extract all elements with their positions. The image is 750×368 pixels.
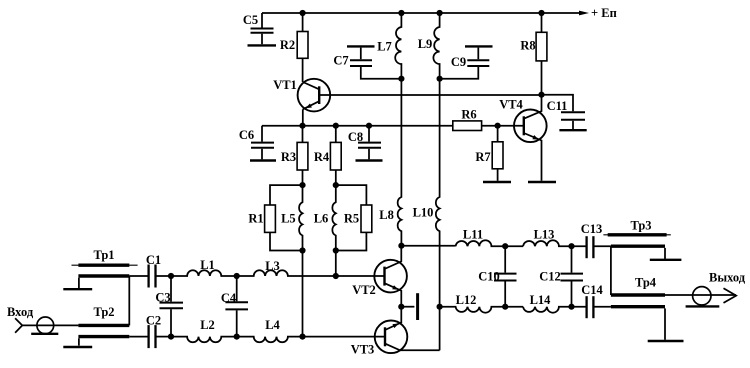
inductor L1 xyxy=(171,270,237,276)
inductor L14 xyxy=(523,307,585,313)
junction dot xyxy=(502,304,508,310)
transformer Tr1 winding 1 xyxy=(78,264,129,267)
svg-text:C4: C4 xyxy=(221,291,237,305)
wire Tr4 output xyxy=(665,294,736,296)
resistor R8 xyxy=(536,13,547,95)
junction dot xyxy=(299,247,305,253)
svg-text:C7: C7 xyxy=(333,54,348,68)
inductor L9 xyxy=(433,13,439,79)
inductor L8 xyxy=(398,79,402,246)
ground C11 xyxy=(559,129,586,131)
svg-text:C5: C5 xyxy=(243,13,258,27)
transistor VT3 xyxy=(375,307,440,353)
svg-text:C12: C12 xyxy=(539,270,561,284)
ground C5 xyxy=(248,44,277,46)
svg-text:L7: L7 xyxy=(377,39,392,53)
capacitor C5 xyxy=(251,13,274,44)
transformer Tr3 winding 1 xyxy=(608,233,667,236)
resistor R2 xyxy=(297,13,308,82)
wire Tr1 to C1 xyxy=(129,275,148,277)
junction dot xyxy=(234,273,240,279)
resistor R3 xyxy=(297,126,308,185)
input connector xyxy=(37,317,54,334)
inductor L6 xyxy=(332,185,335,250)
ground Tr1 xyxy=(63,288,92,290)
capacitor C14 xyxy=(587,296,611,318)
wire Tr2 to C2 xyxy=(129,336,148,338)
wire L5 bottom to row2 xyxy=(302,251,304,337)
ground C6 xyxy=(250,159,276,161)
capacitor C8 xyxy=(358,126,381,160)
svg-text:L8: L8 xyxy=(379,208,394,222)
svg-text:C14: C14 xyxy=(581,283,603,297)
wire Tr1 ground stub xyxy=(78,278,80,288)
svg-text:VT1: VT1 xyxy=(273,78,297,92)
junction dot xyxy=(299,334,305,340)
junction dot xyxy=(168,273,174,279)
junction dot xyxy=(168,334,174,340)
junction dot xyxy=(538,92,544,98)
transformer Tr3 line xyxy=(603,234,670,236)
inductor L12 xyxy=(440,307,523,313)
svg-text:C3: C3 xyxy=(155,291,170,305)
svg-text:L13: L13 xyxy=(534,227,555,241)
capacitor C9 xyxy=(440,46,493,78)
capacitor C11 xyxy=(542,95,586,129)
capacitor C6 xyxy=(251,126,274,160)
svg-text:L11: L11 xyxy=(463,227,483,241)
capacitor C7 xyxy=(347,46,401,78)
ground R7 xyxy=(483,181,511,183)
svg-text:Тр1: Тр1 xyxy=(93,248,114,262)
power +Ep arrow xyxy=(579,11,589,16)
resistor R5 xyxy=(361,205,372,232)
svg-text:Тр3: Тр3 xyxy=(630,219,651,233)
svg-text:C13: C13 xyxy=(581,222,603,236)
transformer Tr1 winding 2 xyxy=(78,274,129,277)
inductor L13 xyxy=(523,240,585,246)
input arrow xyxy=(15,318,22,333)
wire Tr3 ground stub xyxy=(664,248,666,259)
junction dot xyxy=(568,304,574,310)
transformer Tr1 line xyxy=(72,264,138,266)
junction dot xyxy=(300,10,306,16)
wire Tr1 to Tr2 xyxy=(128,276,130,325)
wire VT1 base line xyxy=(319,94,541,96)
ground input connector xyxy=(31,333,58,335)
wire input xyxy=(22,324,78,326)
junction dot xyxy=(299,182,305,188)
svg-text:L9: L9 xyxy=(418,37,433,51)
svg-text:VT3: VT3 xyxy=(351,343,375,357)
svg-text:R7: R7 xyxy=(475,150,490,164)
wire R6 to VT4 base xyxy=(482,125,524,127)
svg-text:R1: R1 xyxy=(248,212,263,226)
junction dot xyxy=(398,10,404,16)
transistor VT1 xyxy=(298,79,331,126)
ground Tr3 xyxy=(650,259,682,261)
inductor L7 xyxy=(395,13,401,79)
inductor L11 xyxy=(456,240,523,246)
ground VT4 emitter xyxy=(528,181,556,183)
resistor R4 xyxy=(330,126,341,185)
resistor R7 xyxy=(492,126,503,181)
junction dot xyxy=(437,10,443,16)
transistor VT4 xyxy=(514,95,547,181)
svg-text:L2: L2 xyxy=(200,318,215,332)
svg-text:R3: R3 xyxy=(281,150,296,164)
junction dot xyxy=(568,243,574,249)
capacitor C3 xyxy=(160,276,184,337)
ground C8 xyxy=(356,159,383,161)
ground Tr4 xyxy=(648,340,684,342)
junction dot xyxy=(398,243,404,249)
inductor L3 xyxy=(237,270,385,276)
output arrow xyxy=(724,288,737,303)
wire Tr3 to Tr4 xyxy=(610,246,612,295)
svg-text:C1: C1 xyxy=(146,253,161,267)
junction dot xyxy=(333,182,339,188)
svg-text:L10: L10 xyxy=(413,206,434,220)
wire top supply rail xyxy=(262,12,580,14)
junction dot xyxy=(495,123,501,129)
svg-text:L6: L6 xyxy=(314,212,329,226)
svg-text:C10: C10 xyxy=(478,270,500,284)
svg-text:VT4: VT4 xyxy=(499,98,523,112)
svg-text:Тр4: Тр4 xyxy=(635,276,657,290)
svg-text:C11: C11 xyxy=(547,99,568,113)
wire L10 to VT3 collector xyxy=(439,307,441,351)
svg-text:C6: C6 xyxy=(239,128,254,142)
svg-text:R5: R5 xyxy=(344,212,359,226)
wire R5 bottom xyxy=(336,232,367,250)
svg-text:L1: L1 xyxy=(200,258,215,272)
transistor VT2 xyxy=(374,246,407,307)
capacitor C10 xyxy=(494,246,517,307)
wire VT2 collector row xyxy=(401,245,455,247)
capacitor C1 xyxy=(149,265,171,288)
svg-text:L5: L5 xyxy=(281,212,296,226)
junction dot xyxy=(398,304,404,310)
svg-text:Вход: Вход xyxy=(7,305,34,319)
svg-text:L12: L12 xyxy=(456,293,477,307)
wire R3 node to R1/L5 xyxy=(270,185,303,205)
svg-text:VT2: VT2 xyxy=(352,283,376,297)
junction dot xyxy=(333,273,339,279)
wire mid rail xyxy=(262,125,453,127)
junction dot xyxy=(398,76,404,82)
transformer Tr2 winding 2 xyxy=(78,335,129,338)
svg-text:+ Еп: + Еп xyxy=(591,6,617,20)
junction dot xyxy=(333,247,339,253)
junction dot xyxy=(437,304,443,310)
resistor R6 xyxy=(453,121,482,131)
inductor L10 xyxy=(436,79,440,307)
svg-text:C8: C8 xyxy=(348,130,363,144)
svg-text:R2: R2 xyxy=(280,38,295,52)
inductor L4 xyxy=(237,337,385,343)
junction dot xyxy=(333,123,339,129)
junction dot xyxy=(437,76,443,82)
transformer Tr4 winding 2 xyxy=(611,305,665,308)
svg-text:Выход: Выход xyxy=(709,271,746,285)
svg-text:R4: R4 xyxy=(314,150,330,164)
junction dot xyxy=(502,243,508,249)
capacitor C2 xyxy=(149,325,171,348)
wire Tr2 ground stub xyxy=(78,338,80,345)
wire L6 bottom to row1 xyxy=(335,251,337,277)
svg-text:R8: R8 xyxy=(520,39,535,53)
junction dot xyxy=(366,123,372,129)
transformer Tr4 winding 1 xyxy=(611,293,665,296)
ground output connector xyxy=(686,305,720,307)
svg-text:Тр2: Тр2 xyxy=(93,305,114,319)
junction dot xyxy=(538,10,544,16)
wire R5 top xyxy=(336,185,367,205)
wire Tr4 ground stub xyxy=(664,308,666,339)
capacitor C4 xyxy=(225,276,248,337)
inductor L5 xyxy=(299,185,302,250)
wire R1 bottom xyxy=(270,232,303,250)
svg-text:L4: L4 xyxy=(265,318,280,332)
output connector xyxy=(693,287,711,305)
transformer Tr2 winding 1 xyxy=(78,324,129,327)
ground Tr2 xyxy=(63,346,92,348)
inductor L2 xyxy=(171,337,237,343)
svg-text:L3: L3 xyxy=(265,259,280,273)
transformer Tr3 winding 2 xyxy=(611,244,665,247)
capacitor C12 xyxy=(561,246,584,307)
junction dot xyxy=(234,334,240,340)
ground stub between VT2 VT3 xyxy=(401,293,417,320)
svg-text:C2: C2 xyxy=(146,314,161,328)
junction dot xyxy=(299,123,305,129)
resistor R1 xyxy=(265,205,276,232)
svg-text:L14: L14 xyxy=(530,293,552,307)
svg-text:R6: R6 xyxy=(461,108,476,122)
svg-text:C9: C9 xyxy=(451,55,466,69)
capacitor C13 xyxy=(587,236,611,258)
